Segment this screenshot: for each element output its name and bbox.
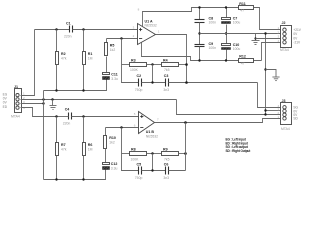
node after C1	[82, 28, 84, 30]
svg-text:3n3: 3n3	[163, 88, 169, 92]
resistor R1	[83, 30, 93, 91]
node R6 bottom / bottom bus	[82, 178, 84, 180]
svg-text:MTA4: MTA4	[11, 115, 20, 119]
svg-text:C11: C11	[111, 72, 117, 76]
node +V rail / C8	[198, 6, 200, 8]
svg-text:R2: R2	[61, 52, 66, 56]
op-amp U1A	[133, 8, 160, 45]
node +V rail / C7	[225, 6, 227, 8]
node -V rail / C10	[225, 59, 227, 61]
svg-text:100n: 100n	[209, 21, 217, 25]
svg-text:47: 47	[241, 62, 245, 66]
svg-text:R11: R11	[239, 2, 245, 6]
resistor R2	[56, 30, 67, 91]
ground near J1	[50, 100, 57, 110]
svg-text:MTA4: MTA4	[280, 48, 289, 52]
node R1 bottom / 0V bus	[82, 89, 84, 91]
svg-text:R4: R4	[163, 59, 168, 63]
0V spine	[43, 91, 45, 180]
capacitor C9 power 100n	[195, 34, 217, 61]
node pin5 row / R6 top	[82, 115, 84, 117]
feedback vertical from pin6	[122, 128, 139, 171]
svg-text:7k5: 7k5	[164, 158, 170, 162]
wire ED input	[21, 108, 57, 117]
capacitor C2	[135, 74, 166, 92]
wire U1A out to J3 pin1	[258, 83, 281, 108]
node ground stub / J2 pin3	[254, 37, 256, 39]
svg-text:C2: C2	[137, 74, 142, 78]
wire pin6 row	[106, 127, 139, 129]
resistor R10	[104, 128, 116, 163]
svg-text:3.3u: 3.3u	[111, 77, 118, 81]
connector J1	[11, 85, 22, 119]
connector J3 output	[281, 99, 292, 131]
svg-text:100u: 100u	[233, 47, 241, 51]
svg-text:1k2: 1k2	[109, 141, 115, 145]
capacitor C1	[35, 21, 138, 38]
node R2 bottom / 0V bus	[55, 89, 57, 91]
capacitor C8 power 100n	[195, 8, 217, 34]
capacitor C11 electrolytic	[103, 72, 119, 81]
svg-text:C4: C4	[65, 108, 70, 112]
capacitor C5	[135, 162, 166, 180]
svg-text:R7: R7	[61, 143, 66, 147]
node ED row / R7 top	[55, 115, 57, 117]
wire EG input	[21, 30, 35, 96]
connector J2 power	[280, 21, 292, 52]
node U1B output / feedback vertical	[184, 121, 187, 124]
svg-text:220n: 220n	[63, 121, 71, 125]
svg-text:750p: 750p	[135, 88, 143, 92]
svg-text:NE5532: NE5532	[145, 23, 157, 27]
svg-text:750p: 750p	[135, 176, 143, 180]
node C3 / output vertical	[185, 81, 188, 84]
svg-text:1k2: 1k2	[110, 48, 116, 52]
svg-text:47k: 47k	[61, 148, 67, 152]
J1 pin labels	[3, 92, 25, 110]
svg-text:SD: SD	[293, 117, 298, 121]
capacitor C3	[163, 74, 257, 92]
bottom 0V bus	[44, 169, 106, 180]
0V top bus	[44, 80, 107, 91]
0V drop to output connector	[265, 34, 267, 115]
svg-text:1M: 1M	[88, 57, 93, 61]
node R9 / feedback right vertical	[184, 152, 187, 155]
svg-text:J1: J1	[14, 85, 18, 89]
resistor R6	[83, 117, 93, 180]
node C5-C6 junction	[151, 169, 153, 171]
feedback right vertical bottom	[185, 123, 187, 171]
resistor R9	[162, 148, 186, 162]
svg-text:100n: 100n	[209, 46, 217, 50]
node 0V drop / J3 pin2	[264, 109, 266, 111]
node pin6 / feedback vertical	[120, 126, 122, 128]
wire mid vertical R/C	[152, 65, 154, 83]
resistor R5	[105, 39, 116, 73]
svg-text:SD : Right Output: SD : Right Output	[226, 149, 252, 153]
svg-text:1M: 1M	[88, 148, 93, 152]
resistor R12	[239, 43, 281, 66]
svg-text:MTA4: MTA4	[281, 127, 290, 131]
0V bus to output	[177, 100, 281, 115]
svg-text:100K: 100K	[131, 158, 140, 162]
capacitor C4	[63, 108, 139, 126]
capacitor C10 power 100u electrolytic	[222, 34, 241, 60]
node 0V rail / C10	[225, 32, 227, 34]
svg-text:C5: C5	[137, 162, 142, 166]
ground mid	[266, 70, 280, 81]
svg-text:R6: R6	[88, 143, 93, 147]
node R8-R9 junction	[151, 152, 153, 154]
svg-text:100u: 100u	[233, 21, 241, 25]
node pin2 / feedback vertical	[120, 37, 122, 39]
node 0V pin3 / spine	[42, 102, 44, 104]
resistor R11	[239, 2, 281, 30]
capacitor C12 electrolytic	[103, 162, 118, 171]
legend	[226, 138, 252, 153]
svg-text:J3: J3	[282, 99, 286, 103]
node input C1	[55, 28, 57, 30]
J3 pin labels	[278, 104, 299, 121]
0V mid rail	[200, 33, 281, 35]
wire J3 pin2 0V	[266, 110, 281, 112]
svg-text:NE5532: NE5532	[146, 134, 158, 138]
svg-text:R9: R9	[163, 148, 168, 152]
node 0V rail / 0V drop	[264, 32, 266, 34]
svg-text:3n3: 3n3	[163, 176, 169, 180]
svg-text:C1: C1	[66, 21, 71, 25]
node -V rail / C9	[198, 59, 200, 61]
wire pin2 row	[107, 38, 138, 40]
resistor R7	[56, 117, 67, 180]
node R3-R4 junction	[151, 63, 153, 65]
svg-text:R8: R8	[131, 148, 136, 152]
svg-text:C3: C3	[164, 74, 169, 78]
capacitor C6	[163, 162, 185, 180]
node 0V drop / ground stub	[264, 68, 266, 70]
ground power rail	[252, 34, 260, 45]
svg-text:R3: R3	[131, 59, 136, 63]
svg-text:47: 47	[240, 9, 244, 13]
node R7 bottom / bottom bus	[55, 178, 57, 180]
capacitor C7 power 100u electrolytic	[222, 7, 241, 34]
op-amp U1B	[134, 112, 159, 139]
svg-text:ED: ED	[3, 105, 8, 109]
svg-text:220n: 220n	[64, 35, 72, 39]
resistor R3	[122, 59, 162, 72]
node R4 / output vertical	[185, 63, 188, 66]
node 0V bus / ground stub	[51, 98, 53, 100]
svg-text:100K: 100K	[130, 68, 139, 72]
node 0V drop / bus	[264, 113, 266, 115]
J2 pin labels	[278, 26, 302, 44]
feedback vertical from pin2	[122, 39, 139, 83]
svg-text:R12: R12	[239, 55, 246, 59]
svg-text:J2: J2	[282, 21, 286, 25]
svg-text:R5: R5	[110, 44, 115, 48]
U1A V- pin4 stub	[142, 43, 262, 61]
resistor R8	[122, 148, 162, 162]
wire mid vertical R/C bottom	[152, 154, 154, 171]
wire 0V pin3	[21, 103, 44, 105]
U1A V+ pin8 stub and rail	[143, 8, 239, 27]
svg-text:3.3u: 3.3u	[111, 167, 118, 171]
node 0V bus / spine junction	[42, 98, 44, 100]
node 0V rail / C9	[198, 32, 200, 34]
svg-text:47k: 47k	[61, 57, 67, 61]
resistor R4	[162, 59, 187, 72]
svg-text:R1: R1	[88, 52, 93, 56]
svg-text:-21V: -21V	[293, 41, 301, 45]
U1B output wire	[155, 119, 281, 123]
U1A output wire	[156, 35, 187, 83]
wire 0V pin2 to bus	[21, 99, 177, 101]
svg-text:7k5: 7k5	[164, 68, 170, 72]
svg-text:C12: C12	[111, 162, 118, 166]
svg-text:C6: C6	[164, 162, 169, 166]
wire J2 pin3 0V	[256, 38, 281, 40]
node C2-C3 junction	[151, 81, 153, 83]
svg-text:R10: R10	[109, 136, 116, 140]
